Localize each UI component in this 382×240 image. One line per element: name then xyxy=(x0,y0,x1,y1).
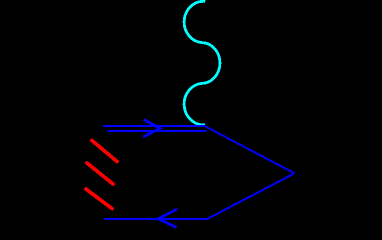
red hatch stroke 1 xyxy=(92,141,117,162)
photon wavy line (cyan) xyxy=(184,1,220,125)
double fermion line, bottom stroke xyxy=(108,130,207,132)
lower diagonal (right point back down-left) xyxy=(207,173,294,219)
red hatch stroke 2 xyxy=(87,163,113,184)
upper diagonal (vertex to right point) xyxy=(205,126,294,173)
right-pointing arrowhead on double line xyxy=(143,120,160,138)
left-pointing arrowhead on bottom line xyxy=(158,209,177,227)
bottom fermion line xyxy=(104,218,207,220)
red hatch stroke 3 xyxy=(86,189,112,209)
double fermion line, top stroke xyxy=(103,125,206,127)
